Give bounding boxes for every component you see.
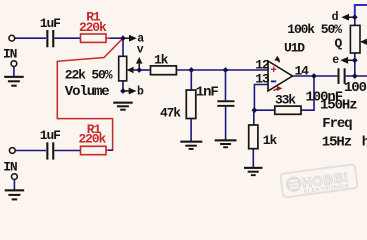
svg-text:100: 100	[344, 80, 367, 96]
svg-text:22k 50%: 22k 50%	[65, 67, 113, 82]
svg-text:IN: IN	[3, 46, 17, 61]
svg-text:e: e	[332, 54, 339, 67]
svg-text:IN: IN	[3, 160, 17, 175]
svg-text:d: d	[332, 11, 339, 24]
svg-text:14: 14	[295, 64, 310, 79]
svg-text:1nF: 1nF	[196, 85, 219, 101]
svg-text:a: a	[137, 32, 144, 45]
svg-text:h: h	[362, 134, 367, 150]
svg-text:Freq: Freq	[322, 116, 352, 132]
svg-text:100k: 100k	[287, 22, 315, 37]
svg-text:220k: 220k	[79, 131, 107, 146]
svg-text:33k: 33k	[275, 93, 296, 108]
svg-text:1k: 1k	[154, 52, 169, 67]
svg-text:150Hz: 150Hz	[320, 97, 357, 113]
svg-text:Volume: Volume	[65, 84, 110, 100]
svg-text:1uF: 1uF	[40, 16, 61, 31]
svg-text:U1D: U1D	[284, 41, 305, 56]
svg-text:220k: 220k	[79, 20, 107, 35]
svg-text:15Hz: 15Hz	[322, 134, 352, 150]
svg-text:12: 12	[255, 57, 270, 72]
svg-text:1k: 1k	[263, 133, 278, 148]
svg-text:13: 13	[255, 71, 270, 86]
svg-text:1uF: 1uF	[40, 128, 61, 143]
svg-text:47k: 47k	[160, 106, 181, 121]
svg-text:b: b	[137, 86, 144, 99]
